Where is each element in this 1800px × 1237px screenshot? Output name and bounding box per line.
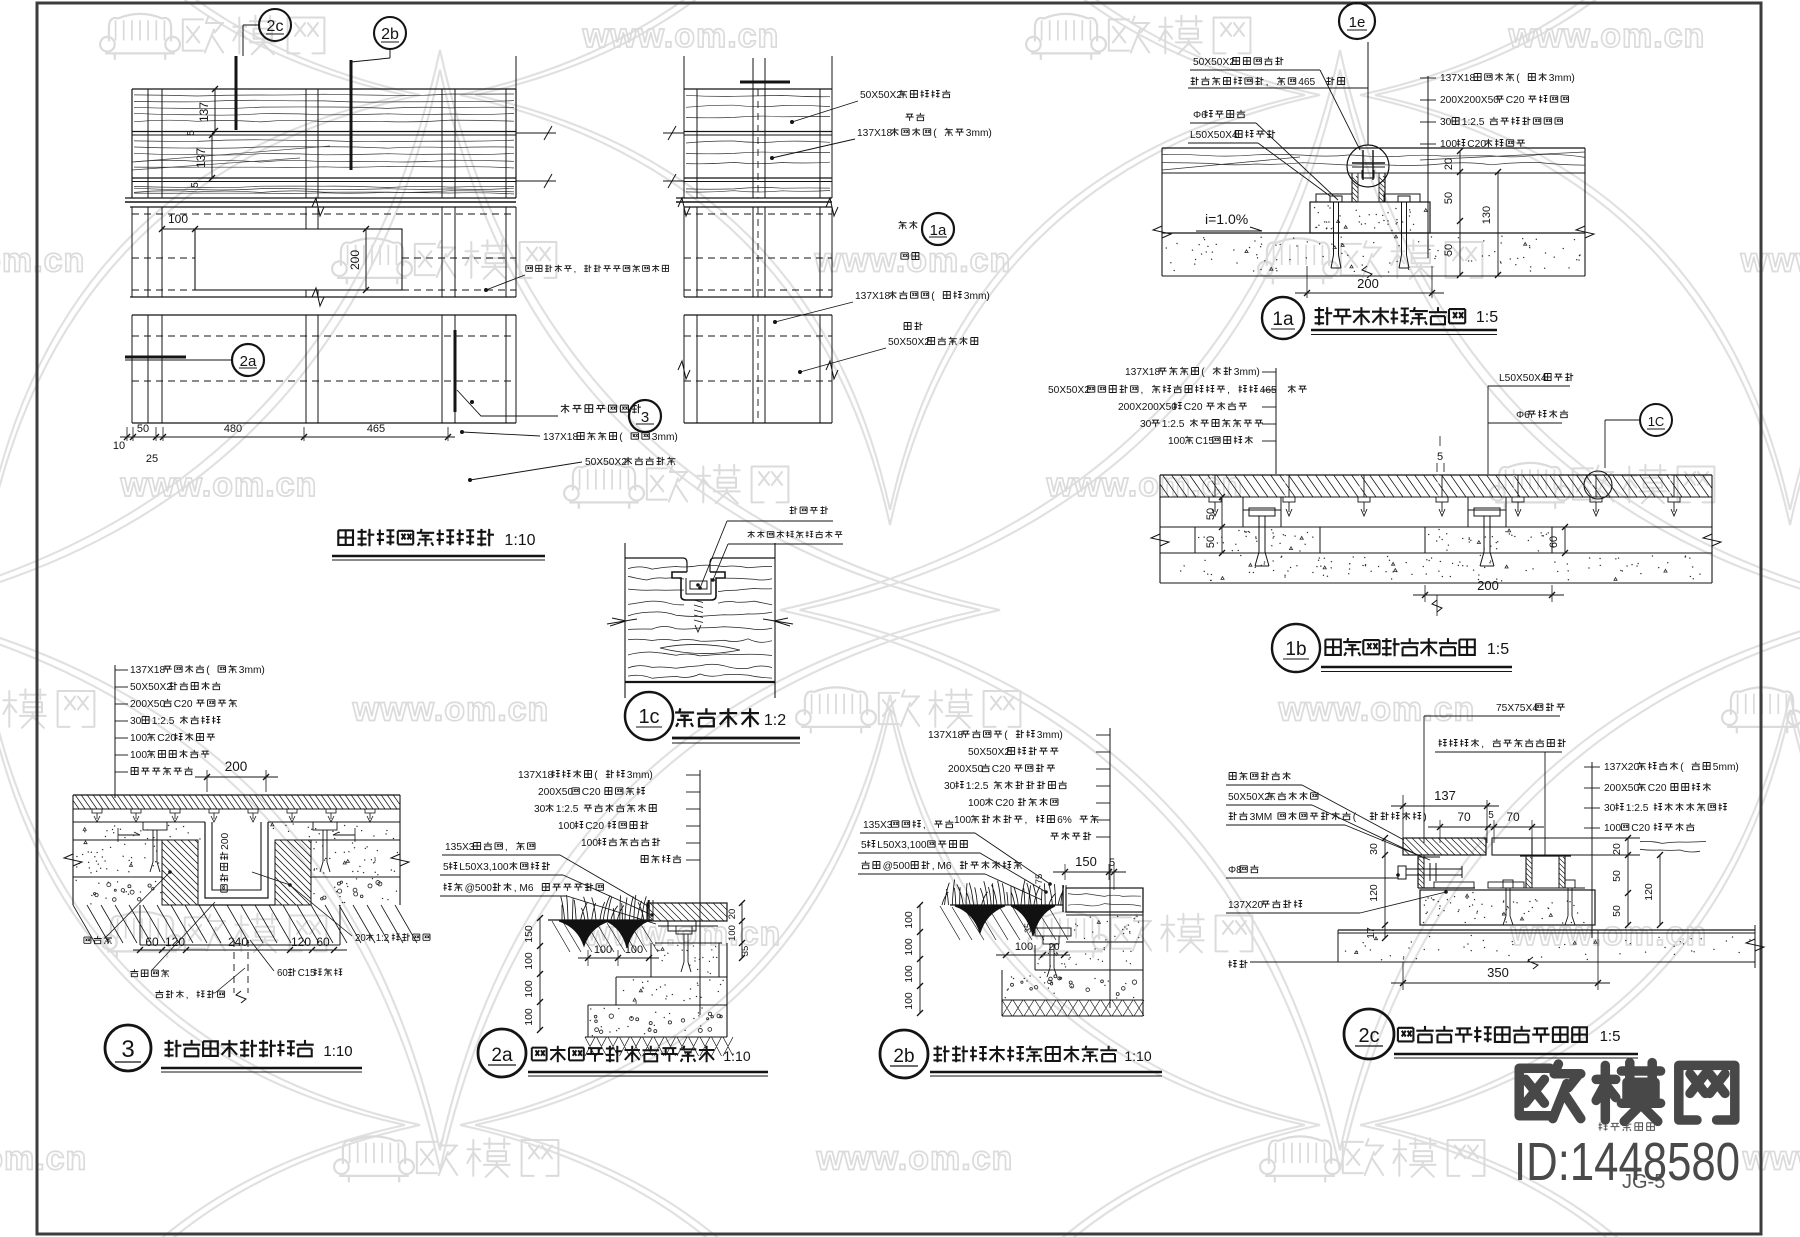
svg-text:1:10: 1:10 xyxy=(504,532,535,549)
svg-text:50: 50 xyxy=(137,423,149,435)
svg-text:,: , xyxy=(1266,77,1269,88)
svg-text:137: 137 xyxy=(194,148,208,168)
svg-text:50X50X2: 50X50X2 xyxy=(585,457,627,468)
svg-text:3mm): 3mm) xyxy=(964,291,990,302)
svg-text:137X20: 137X20 xyxy=(1228,900,1263,911)
svg-text:C20: C20 xyxy=(995,798,1014,809)
sheet name text xyxy=(1599,1122,1608,1130)
detail 1b: platform installation detail 2, 1:5 xyxy=(1160,474,1712,476)
svg-text:120: 120 xyxy=(291,935,311,949)
svg-text:60: 60 xyxy=(277,968,288,979)
svg-text:2c: 2c xyxy=(267,18,284,35)
svg-text:1a: 1a xyxy=(1272,309,1294,330)
svg-text:C15: C15 xyxy=(298,968,316,979)
svg-text:2b: 2b xyxy=(381,26,399,43)
svg-text:5: 5 xyxy=(186,130,197,136)
svg-text:i=1.0%: i=1.0% xyxy=(1205,211,1248,227)
svg-text:100: 100 xyxy=(1604,823,1621,834)
svg-text:200X50: 200X50 xyxy=(130,699,165,710)
svg-text:3MM: 3MM xyxy=(1250,812,1273,823)
svg-text:50: 50 xyxy=(1205,536,1217,548)
svg-text:L50X50X4: L50X50X4 xyxy=(1190,130,1238,141)
svg-text:50X50X2: 50X50X2 xyxy=(1228,792,1270,803)
svg-text:1:2.5: 1:2.5 xyxy=(1462,117,1485,128)
svg-text:30: 30 xyxy=(1440,117,1452,128)
svg-text:50X50X2: 50X50X2 xyxy=(860,90,902,101)
svg-text:C20: C20 xyxy=(585,821,604,832)
svg-text:www.om.cn: www.om.cn xyxy=(1742,1140,1800,1178)
svg-text:10: 10 xyxy=(113,440,125,452)
svg-text:200: 200 xyxy=(1357,276,1379,291)
svg-text:3mm): 3mm) xyxy=(1234,367,1260,378)
svg-text:www.om.cn: www.om.cn xyxy=(1508,17,1706,55)
svg-text:1b: 1b xyxy=(1285,639,1306,660)
svg-text:130: 130 xyxy=(1481,206,1493,224)
svg-text:(: ( xyxy=(933,128,937,139)
svg-text:35: 35 xyxy=(1023,923,1033,933)
svg-text:@500: @500 xyxy=(883,861,911,872)
svg-text:50: 50 xyxy=(1443,244,1455,256)
svg-text:1C: 1C xyxy=(1648,414,1665,429)
svg-text:35: 35 xyxy=(740,946,751,957)
svg-text:200X200X50: 200X200X50 xyxy=(1440,95,1499,106)
svg-text:240: 240 xyxy=(228,935,248,949)
svg-text:30: 30 xyxy=(1140,419,1152,430)
svg-text:3: 3 xyxy=(121,1036,134,1063)
svg-text:www.om.cn: www.om.cn xyxy=(120,466,318,504)
svg-text:C20: C20 xyxy=(1648,783,1667,794)
svg-text:200: 200 xyxy=(225,759,248,774)
svg-text:20: 20 xyxy=(1048,942,1060,953)
svg-text:,: , xyxy=(186,990,189,1001)
svg-text:1:2: 1:2 xyxy=(376,933,389,944)
svg-text:, M6: , M6 xyxy=(932,861,952,872)
svg-text:100: 100 xyxy=(903,965,915,983)
svg-text:50X50X2: 50X50X2 xyxy=(130,682,172,693)
svg-text:, M6: , M6 xyxy=(514,883,534,894)
svg-text:60: 60 xyxy=(1548,536,1560,548)
svg-text:465: 465 xyxy=(367,423,385,435)
svg-text:www.om.cn: www.om.cn xyxy=(1046,466,1244,504)
svg-text:5: 5 xyxy=(1488,810,1494,821)
svg-text:100: 100 xyxy=(1168,436,1185,447)
svg-text:(: ( xyxy=(931,291,935,302)
svg-text:100: 100 xyxy=(523,1008,535,1026)
svg-text:www.om.cn: www.om.cn xyxy=(816,1140,1014,1178)
svg-text:1:10: 1:10 xyxy=(1124,1048,1151,1064)
detail 2b: platform edge treatment detail 2, 1:10 xyxy=(1109,728,1111,1008)
svg-text:1:2.5: 1:2.5 xyxy=(966,781,989,792)
svg-text:100: 100 xyxy=(903,992,915,1010)
svg-text:137X18: 137X18 xyxy=(518,770,553,781)
detail 3: platform drainage channel detail 1:10 xyxy=(114,665,116,798)
svg-text:(: ( xyxy=(1201,367,1205,378)
svg-text:,: , xyxy=(1481,739,1484,750)
svg-text:5: 5 xyxy=(190,182,201,188)
svg-text:200: 200 xyxy=(220,832,231,849)
svg-text:60: 60 xyxy=(316,935,330,949)
svg-text:30: 30 xyxy=(1368,843,1380,855)
svg-text:100: 100 xyxy=(954,815,971,826)
svg-text:1e: 1e xyxy=(1349,14,1366,31)
svg-text:137: 137 xyxy=(1434,788,1456,803)
svg-text:,: , xyxy=(1141,385,1144,396)
svg-text:30: 30 xyxy=(130,716,142,727)
svg-text:www.om.cn: www.om.cn xyxy=(352,691,550,729)
svg-text:100: 100 xyxy=(968,798,985,809)
svg-text:ID:1448580: ID:1448580 xyxy=(1514,1132,1740,1192)
svg-text:5mm): 5mm) xyxy=(1713,762,1739,773)
svg-text:100: 100 xyxy=(625,944,643,956)
svg-text:20: 20 xyxy=(1443,158,1455,170)
svg-text:30: 30 xyxy=(1604,803,1616,814)
svg-text:1:5: 1:5 xyxy=(1476,309,1498,326)
svg-text:137X18: 137X18 xyxy=(1125,367,1160,378)
svg-text:L50X50X4: L50X50X4 xyxy=(1499,373,1547,384)
svg-text:www.om.cn: www.om.cn xyxy=(1510,915,1708,953)
svg-text:1:10: 1:10 xyxy=(723,1048,750,1064)
svg-text:www.om.cn: www.om.cn xyxy=(0,1140,87,1178)
svg-text:2b: 2b xyxy=(893,1046,914,1067)
svg-text:3mm): 3mm) xyxy=(652,432,678,443)
svg-text:137X18: 137X18 xyxy=(857,128,892,139)
svg-text:25: 25 xyxy=(146,453,158,465)
svg-text:200X200X50: 200X200X50 xyxy=(1118,402,1177,413)
svg-text:,: , xyxy=(923,820,926,831)
svg-text:3mm): 3mm) xyxy=(239,665,265,676)
svg-text:70: 70 xyxy=(1506,810,1520,824)
svg-text:100: 100 xyxy=(558,821,575,832)
svg-text:,: , xyxy=(574,264,577,274)
svg-text:2c: 2c xyxy=(1358,1025,1379,1047)
svg-text:137X18: 137X18 xyxy=(928,730,963,741)
detail 2a: platform edge treatment detail 1, 1:10 xyxy=(699,770,701,1015)
svg-text:135X3: 135X3 xyxy=(863,820,893,831)
svg-text:1:2: 1:2 xyxy=(764,712,786,729)
svg-text:137X18: 137X18 xyxy=(1440,73,1475,84)
svg-text:3mm): 3mm) xyxy=(627,770,653,781)
svg-text:120: 120 xyxy=(1643,883,1655,901)
svg-text:www.om.cn: www.om.cn xyxy=(1740,242,1800,280)
svg-text:200: 200 xyxy=(1477,578,1499,593)
svg-text:20: 20 xyxy=(727,909,738,920)
svg-text:1:2.5: 1:2.5 xyxy=(556,804,579,815)
svg-text:100: 100 xyxy=(1440,139,1457,150)
svg-text:C20: C20 xyxy=(1467,139,1486,150)
svg-text:50: 50 xyxy=(1611,905,1623,917)
svg-text:C20: C20 xyxy=(992,764,1011,775)
svg-text:50X50X2: 50X50X2 xyxy=(888,337,930,348)
watermark star curve right xyxy=(780,50,1800,1170)
svg-text:100: 100 xyxy=(903,911,915,929)
svg-text:137: 137 xyxy=(197,102,211,122)
svg-text:465: 465 xyxy=(1260,385,1277,396)
svg-text:137X18: 137X18 xyxy=(543,432,578,443)
svg-text:5: 5 xyxy=(861,840,867,851)
svg-text:Φ6: Φ6 xyxy=(1516,410,1530,421)
svg-text:L50X3,100: L50X3,100 xyxy=(459,862,509,873)
svg-text:L50X3,100: L50X3,100 xyxy=(877,840,927,851)
svg-text:(: ( xyxy=(1680,762,1684,773)
svg-text:50X50X2: 50X50X2 xyxy=(1048,385,1090,396)
svg-text:50: 50 xyxy=(1443,192,1455,204)
svg-text:(: ( xyxy=(206,665,210,676)
svg-text:20: 20 xyxy=(1611,843,1623,855)
plan fragment with joist labels xyxy=(740,81,790,84)
svg-text:5: 5 xyxy=(443,862,449,873)
svg-text:3mm): 3mm) xyxy=(1037,730,1063,741)
svg-text:www.om.cn: www.om.cn xyxy=(0,242,85,280)
svg-text:100: 100 xyxy=(130,733,147,744)
svg-text:www.om.cn: www.om.cn xyxy=(582,17,780,55)
svg-text:100: 100 xyxy=(130,750,147,761)
svg-text:1:2.5: 1:2.5 xyxy=(152,716,175,727)
watermark star curve left xyxy=(0,50,1000,1170)
svg-text:137X20: 137X20 xyxy=(1604,762,1639,773)
svg-text:C20: C20 xyxy=(582,787,601,798)
svg-text:17: 17 xyxy=(1365,927,1377,939)
svg-text:75: 75 xyxy=(1034,874,1045,885)
svg-text:50X50X2: 50X50X2 xyxy=(968,747,1010,758)
svg-text:135X3: 135X3 xyxy=(445,842,475,853)
svg-text:50: 50 xyxy=(1611,870,1623,882)
svg-text:1:2.5: 1:2.5 xyxy=(1626,803,1649,814)
svg-text:www.om.cn: www.om.cn xyxy=(1278,691,1476,729)
detail 2c: platform edge treatment detail 3, 1:5 xyxy=(1229,773,1236,780)
plan view: wood platform plan 1:10 xyxy=(132,88,516,90)
svg-text:,: , xyxy=(505,842,508,853)
svg-text:150: 150 xyxy=(1075,854,1097,869)
svg-text:70: 70 xyxy=(1457,810,1471,824)
svg-text:200X50: 200X50 xyxy=(1604,783,1639,794)
svg-text:1:5: 1:5 xyxy=(1487,641,1509,658)
svg-text:465: 465 xyxy=(1298,77,1315,88)
svg-text:100: 100 xyxy=(523,952,535,970)
svg-text:@500: @500 xyxy=(465,883,493,894)
svg-text:100: 100 xyxy=(903,938,915,956)
svg-text:50: 50 xyxy=(1205,508,1217,520)
svg-text:3mm): 3mm) xyxy=(1549,73,1575,84)
svg-text:350: 350 xyxy=(1487,965,1509,980)
svg-text:120: 120 xyxy=(1368,884,1380,902)
svg-text:200X50: 200X50 xyxy=(538,787,573,798)
svg-text:(: ( xyxy=(1353,812,1357,823)
svg-text:,: , xyxy=(1025,815,1028,826)
svg-text:100: 100 xyxy=(1015,941,1033,953)
svg-text:6%: 6% xyxy=(1057,815,1072,826)
detail 1c: clip slot detail 1:2 xyxy=(624,543,626,698)
svg-text:150: 150 xyxy=(523,925,535,943)
svg-text:100: 100 xyxy=(581,838,598,849)
svg-text:3mm): 3mm) xyxy=(966,128,992,139)
svg-text:137X18: 137X18 xyxy=(130,665,165,676)
svg-text:30: 30 xyxy=(944,781,956,792)
svg-text:1c: 1c xyxy=(638,706,659,728)
svg-text:30: 30 xyxy=(534,804,546,815)
svg-text:C20: C20 xyxy=(1506,95,1525,106)
svg-text:C20: C20 xyxy=(174,699,193,710)
svg-text:100: 100 xyxy=(727,925,738,941)
svg-text:100: 100 xyxy=(168,212,188,226)
svg-text:(: ( xyxy=(619,432,623,443)
big OM watermark logo xyxy=(1519,1064,1581,1119)
svg-text:C20: C20 xyxy=(1631,823,1650,834)
svg-text:1:5: 1:5 xyxy=(1600,1028,1621,1045)
svg-text:(: ( xyxy=(1516,73,1520,84)
svg-text:50X50X2: 50X50X2 xyxy=(1193,57,1235,68)
svg-text:60: 60 xyxy=(145,935,159,949)
svg-text:480: 480 xyxy=(224,423,242,435)
svg-text:20: 20 xyxy=(355,933,366,944)
svg-text:1:10: 1:10 xyxy=(323,1043,352,1060)
svg-text:www.om.cn: www.om.cn xyxy=(814,242,1012,280)
svg-text:C15: C15 xyxy=(1195,436,1214,447)
svg-text:(: ( xyxy=(594,770,598,781)
svg-text:5: 5 xyxy=(1437,451,1443,463)
svg-text:100: 100 xyxy=(523,980,535,998)
svg-text:200X50: 200X50 xyxy=(948,764,983,775)
svg-text:100: 100 xyxy=(594,944,612,956)
svg-text:,: , xyxy=(1227,385,1230,396)
svg-text:C20: C20 xyxy=(1184,402,1203,413)
svg-text:(: ( xyxy=(1004,730,1008,741)
svg-text:2a: 2a xyxy=(491,1045,513,1066)
svg-text:C20: C20 xyxy=(157,733,176,744)
svg-text:1:2.5: 1:2.5 xyxy=(1162,419,1185,430)
detail 1a: platform installation detail 1, 1:5 xyxy=(1161,148,1163,276)
svg-text:200: 200 xyxy=(348,250,362,270)
svg-text:137X18: 137X18 xyxy=(855,291,890,302)
svg-text:75X75X4: 75X75X4 xyxy=(1496,703,1538,714)
